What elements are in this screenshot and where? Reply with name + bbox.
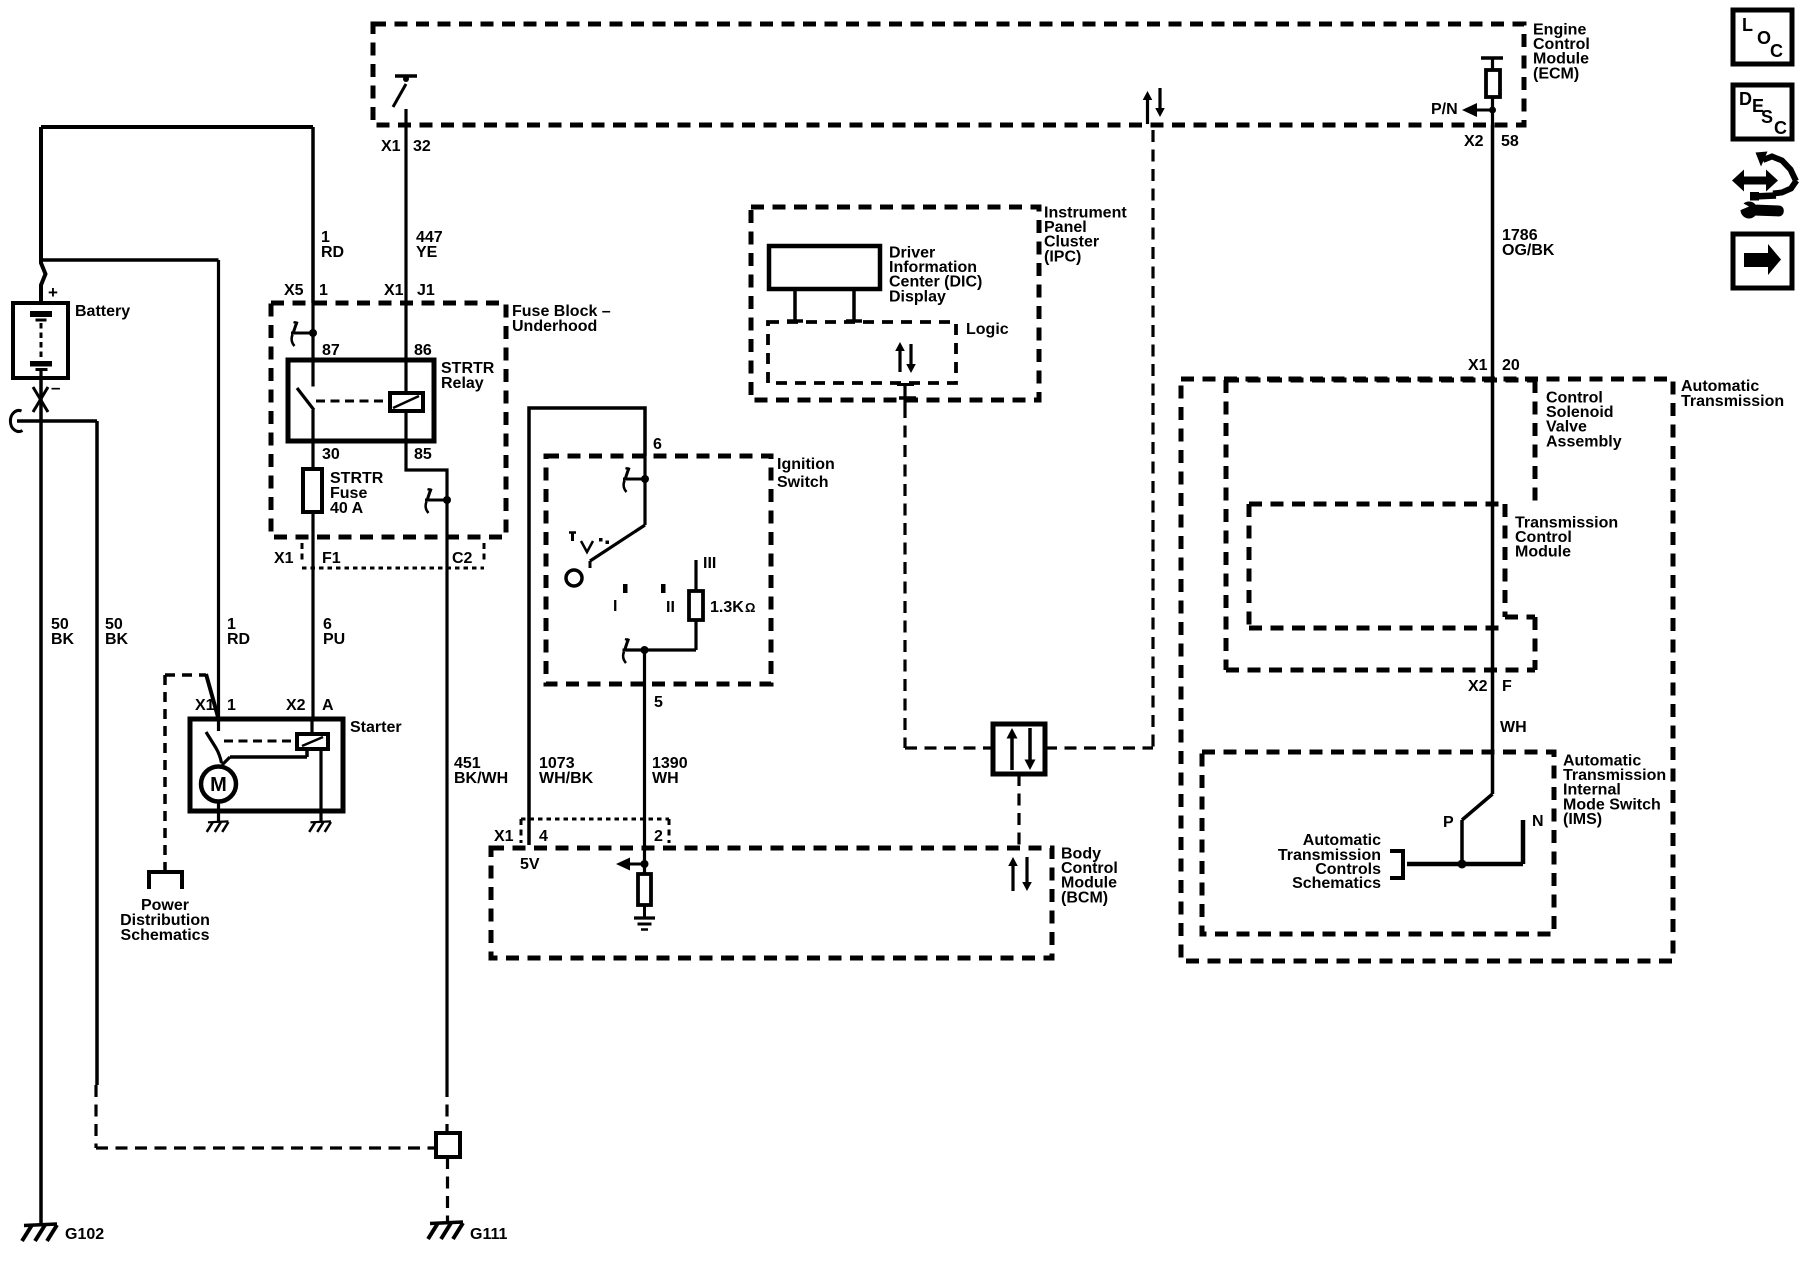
svg-text:BK/WH: BK/WH — [454, 770, 508, 787]
svg-text:5V: 5V — [520, 856, 540, 873]
svg-text:Underhood: Underhood — [512, 318, 597, 335]
svg-text:Starter: Starter — [350, 719, 402, 736]
svg-text:P/N: P/N — [1431, 101, 1458, 118]
svg-text:O: O — [1757, 28, 1771, 48]
svg-text:(BCM): (BCM) — [1061, 889, 1108, 906]
svg-text:RD: RD — [321, 244, 344, 261]
svg-text:40 A: 40 A — [330, 500, 364, 517]
svg-text:Logic: Logic — [966, 321, 1009, 338]
svg-text:N: N — [1532, 813, 1544, 830]
svg-text:30: 30 — [322, 446, 340, 463]
svg-text:Schematics: Schematics — [121, 927, 210, 944]
svg-text:(ECM): (ECM) — [1533, 65, 1579, 82]
svg-text:2: 2 — [654, 828, 663, 845]
svg-text:L: L — [1742, 15, 1753, 35]
svg-text:Ω: Ω — [745, 600, 755, 615]
svg-text:Display: Display — [889, 288, 946, 305]
svg-text:86: 86 — [414, 342, 432, 359]
svg-text:C: C — [1770, 41, 1783, 61]
svg-text:G102: G102 — [65, 1226, 104, 1243]
svg-text:D: D — [1739, 89, 1752, 109]
svg-text:YE: YE — [416, 244, 438, 261]
svg-text:C2: C2 — [452, 550, 473, 567]
svg-text:Relay: Relay — [441, 375, 484, 392]
svg-text:G111: G111 — [470, 1226, 507, 1243]
svg-text:5: 5 — [654, 694, 663, 711]
svg-text:Assembly: Assembly — [1546, 433, 1622, 450]
svg-text:Transmission: Transmission — [1681, 393, 1784, 410]
svg-text:X1: X1 — [381, 138, 401, 155]
svg-text:1.3K: 1.3K — [710, 599, 744, 616]
svg-text:1: 1 — [319, 282, 328, 299]
svg-text:1: 1 — [227, 697, 236, 714]
svg-text:A: A — [322, 697, 334, 714]
svg-text:X2: X2 — [1464, 133, 1484, 150]
svg-text:X1: X1 — [494, 828, 514, 845]
svg-text:S: S — [1761, 107, 1773, 127]
svg-text:RD: RD — [227, 631, 250, 648]
svg-text:X2: X2 — [286, 697, 306, 714]
svg-text:Battery: Battery — [75, 303, 130, 320]
svg-text:WH: WH — [1500, 719, 1527, 736]
svg-text:(IPC): (IPC) — [1044, 248, 1081, 265]
svg-text:Switch: Switch — [777, 474, 829, 491]
svg-text:OG/BK: OG/BK — [1502, 242, 1555, 259]
svg-text:32: 32 — [413, 138, 431, 155]
svg-text:II: II — [666, 599, 675, 616]
svg-text:F: F — [1502, 678, 1512, 695]
svg-text:+: + — [48, 283, 58, 302]
svg-text:–: – — [51, 378, 60, 397]
svg-text:Module: Module — [1515, 544, 1571, 561]
svg-text:Ignition: Ignition — [777, 456, 835, 473]
svg-text:P: P — [1443, 814, 1454, 831]
svg-text:Schematics: Schematics — [1292, 875, 1381, 892]
svg-text:X1: X1 — [1468, 357, 1488, 374]
svg-text:87: 87 — [322, 342, 340, 359]
svg-text:WH: WH — [652, 770, 679, 787]
svg-text:F1: F1 — [322, 550, 341, 567]
svg-text:WH/BK: WH/BK — [539, 770, 594, 787]
svg-text:X5: X5 — [284, 282, 304, 299]
svg-text:6: 6 — [653, 436, 662, 453]
svg-text:PU: PU — [323, 631, 345, 648]
svg-text:BK: BK — [51, 631, 75, 648]
svg-text:I: I — [613, 598, 617, 615]
svg-text:58: 58 — [1501, 133, 1519, 150]
svg-text:4: 4 — [539, 828, 548, 845]
svg-text:J1: J1 — [417, 282, 435, 299]
svg-text:X2: X2 — [1468, 678, 1488, 695]
svg-text:20: 20 — [1502, 357, 1520, 374]
svg-text:BK: BK — [105, 631, 129, 648]
svg-text:M: M — [210, 774, 227, 796]
svg-text:X1: X1 — [274, 550, 294, 567]
svg-text:X1: X1 — [384, 282, 404, 299]
svg-text:III: III — [703, 555, 716, 572]
svg-text:85: 85 — [414, 446, 432, 463]
svg-text:C: C — [1774, 118, 1787, 138]
svg-text:(IMS): (IMS) — [1563, 811, 1602, 828]
